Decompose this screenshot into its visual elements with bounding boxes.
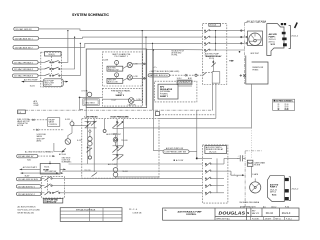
switch contact S1-b: [45, 67, 60, 70]
switch contact S1-c: [45, 74, 60, 77]
svg-text:29-21-0: 29-21-0: [282, 212, 291, 215]
wire lamp test to panel: [79, 97, 103, 99]
svg-text:SPECIAL EQUIP BULB: SPECIAL EQUIP BULB: [76, 208, 96, 211]
svg-text:HIGH PRESSURE: HIGH PRESSURE: [111, 116, 130, 118]
cluster diamond junction: [89, 130, 92, 133]
svg-text:115 VAC BUS NO 2: 115 VAC BUS NO 2: [15, 46, 34, 49]
switch module S1 label box W-4: [45, 52, 62, 56]
cluster bottom wire right: [116, 176, 160, 178]
svg-text:CODE 1B: CODE 1B: [132, 212, 142, 214]
indicator lamp DS3 master caution: [128, 98, 141, 107]
wire case drain to relay: [189, 152, 202, 159]
svg-text:LOW PRESS: LOW PRESS: [85, 116, 99, 118]
bus drop vertical D1: [141, 31, 143, 64]
legend box AUX HYD PRESS LOW: [107, 66, 123, 71]
long wire row W5: [64, 192, 202, 194]
wire L2 to transfer relay K1: [39, 37, 203, 38]
svg-text:GRD TEST: GRD TEST: [85, 102, 95, 104]
cluster vertical V2: [93, 119, 95, 171]
lamp circuit row 1: circle numbered 1: [115, 61, 119, 65]
cluster right vertical V4: [122, 119, 124, 146]
case drain vertical wire: [251, 84, 253, 158]
gnd svce relay contact: [54, 143, 66, 153]
indicator lamp DS2: [127, 75, 138, 80]
switch contact S1-a: [45, 60, 60, 63]
wire APU regulator to system box: [178, 85, 192, 87]
svg-text:P.CODE 1: P.CODE 1: [252, 218, 259, 220]
lamp test circle K3: [82, 89, 92, 97]
aux pump gnd control switch label box: [43, 199, 63, 204]
svg-text:(APU): (APU): [37, 140, 42, 143]
panel P5 sheet1 title: [112, 53, 131, 58]
wire panel box edge down to cluster: [85, 108, 87, 119]
svg-text:+: +: [243, 155, 244, 157]
wire battery bus dashed to relay: [170, 73, 207, 77]
svg-text:29-21-05: 29-21-05: [209, 151, 216, 153]
bottom left note text: [18, 205, 41, 214]
svg-text:CAUTION: CAUTION: [128, 103, 137, 106]
relay output wire to boundary: [224, 158, 239, 164]
svg-text:21-20: 21-20: [285, 106, 289, 108]
long wire row W1: [69, 163, 203, 165]
legend table: [273, 99, 295, 111]
relay contact row 1: [204, 29, 226, 33]
svg-text:BUS 1 LOW: BUS 1 LOW: [108, 82, 118, 84]
panel edge terminal T2: [144, 78, 146, 80]
pump motor B1 circle: [249, 33, 261, 45]
pump2 unit text: [270, 183, 279, 196]
svg-text:B-38: B-38: [188, 78, 192, 80]
panel P5 sheet2 title: [111, 89, 131, 97]
electric motor housing box: [248, 31, 263, 46]
gnd svce relay text: [59, 153, 72, 164]
wire bus 4 to transfer relay K1: [147, 48, 203, 50]
lower switch contact c: [41, 191, 64, 195]
svg-text:A-2 LOW: A-2 LOW: [176, 159, 184, 162]
note text empty ac elec bus: [149, 67, 179, 73]
svg-text:S-2 PUMP SW: S-2 PUMP SW: [45, 171, 57, 173]
arrow right of M1: [60, 169, 66, 171]
node label 115 VAC BUS 2 (L3): [13, 46, 39, 50]
wire switch S1 out c up to bus band: [60, 43, 80, 75]
svg-text:REV 21: REV 21: [275, 218, 281, 220]
pump2 connector black rect J3: [285, 178, 289, 181]
svg-text:SHEET 2: SHEET 2: [116, 95, 125, 97]
ground test box: [83, 99, 100, 106]
node label 115 vac bus (L9): [16, 185, 41, 189]
vertical wire inside panel box B: [145, 78, 147, 105]
wire arrow right from S2: [63, 81, 69, 83]
double arrow harness line: [21, 172, 64, 174]
svg-text:PRESS: PRESS: [252, 70, 259, 72]
node label 115 VAC XFR BUS (L4): [13, 61, 39, 65]
junction dots on bus band: [142, 30, 154, 51]
fire annun panel P5 sheet2 dashed box: [102, 88, 142, 106]
coil TR-1 circles bottom: [113, 168, 128, 179]
cluster aux vertical V1b: [103, 119, 106, 133]
svg-text:84-PG 204, 227 & DU66: 84-PG 204, 227 & DU66: [18, 209, 41, 211]
svg-text:115 VAC GRD SV BUS: 115 VAC GRD SV BUS: [18, 178, 39, 181]
svg-text:P. 201-1: P. 201-1: [286, 218, 292, 220]
cluster rung mid: [113, 128, 124, 134]
annunciator panel P5 sheet1 dashed box: [102, 52, 142, 86]
title block drawing title: [178, 210, 203, 216]
long wire row W3: [64, 177, 202, 179]
svg-text:SCHEMATIC: SCHEMATIC: [62, 161, 73, 164]
svg-text:P5-2 SHEET 1: P5-2 SHEET 1: [115, 56, 129, 58]
reservoir relay contact 2: [205, 170, 224, 174]
wire lamp row1: [117, 64, 143, 69]
svg-text:DOUGLAS: DOUGLAS: [219, 211, 246, 216]
svg-text:P6 PNL: P6 PNL: [172, 55, 178, 57]
coil K1 circles left: [88, 133, 92, 150]
svg-text:115 VAC GRD SV: 115 VAC GRD SV: [15, 28, 32, 31]
cluster vertical V1: [87, 119, 89, 164]
svg-text:S-243: S-243: [65, 119, 70, 121]
coil K2 circle: [70, 120, 74, 126]
wire relay to ground boundary left: [203, 72, 213, 74]
label oil press value: [174, 159, 184, 162]
svg-text:ACT-1B: ACT-1B: [17, 124, 24, 127]
svg-text:AUX HYDRAULIC PUMP: AUX HYDRAULIC PUMP: [178, 210, 203, 213]
svg-text:28: 28: [278, 104, 280, 106]
svg-text:W-13: W-13: [271, 44, 275, 46]
reservoir relay contact 3: [205, 177, 224, 181]
lower switch contact b: [41, 184, 64, 188]
APU regulator box U1: [158, 84, 178, 99]
wire dashed to relief valve: [29, 119, 48, 121]
arrow into reservoir area: [229, 60, 234, 62]
svg-text:M-161: M-161: [44, 167, 49, 169]
relay contact row 4: [204, 49, 226, 53]
junction plus marks: [230, 173, 236, 175]
cluster switch SW-H2: [112, 146, 123, 153]
svg-text:S-137: S-137: [77, 140, 82, 142]
pump2 connector black rect J5: [285, 197, 289, 200]
coil TR-2 circles mid: [113, 134, 127, 146]
svg-text:+: +: [238, 155, 239, 157]
wire L3 to transfer relay K1: [39, 43, 203, 47]
wire cluster to case drain label: [153, 150, 163, 152]
svg-text:AUX HYD PUMP AREA: AUX HYD PUMP AREA: [247, 20, 267, 23]
panel edge terminal T1: [142, 63, 145, 65]
switch module S1 dashed enclosure: [41, 52, 62, 87]
pump2 bracket and ref: [289, 177, 298, 201]
wire L5 into switch S1: [38, 68, 44, 70]
pump2 boundary dash-dot: [245, 151, 262, 207]
bracket and sheet ref right: [289, 26, 298, 49]
wire relay drop to terminal: [159, 83, 216, 118]
svg-text:LOW PRESS LIGHT SW: LOW PRESS LIGHT SW: [165, 152, 187, 154]
wire lamp row3: [102, 99, 142, 100]
svg-text:36: 36: [278, 109, 280, 111]
svg-text:B-437: B-437: [25, 175, 30, 177]
cluster switch SW-H3: [112, 154, 123, 160]
page tick mark top right: [295, 23, 298, 29]
svg-text:29-21-0: 29-21-0: [291, 36, 298, 38]
transfer relay R1 dashed enclosure: [203, 24, 227, 85]
bus drop vertical D4: [152, 50, 154, 151]
wire L6 into switch S1: [38, 75, 44, 77]
motor circle M2: [65, 126, 72, 145]
node label 115 vac gnd svce bus (L7): [17, 154, 38, 158]
svg-text:(SHT 1): (SHT 1): [269, 41, 276, 43]
svg-text:CONTROL SW: CONTROL SW: [44, 201, 56, 203]
svg-text:AUX HYD PUMP LOW: AUX HYD PUMP LOW: [166, 147, 184, 150]
relay contact row 2: [204, 36, 226, 40]
wire relay drop to boundary: [212, 83, 214, 110]
svg-text:ALT HYD PUMP 2: ALT HYD PUMP 2: [23, 166, 37, 169]
svg-text:21-10: 21-10: [285, 104, 289, 106]
reservoir relay armature vertical: [216, 158, 218, 192]
svg-text:29-21-04: 29-21-04: [210, 25, 216, 27]
transfer relay title box: [209, 24, 221, 27]
legend box GEN OFF BUS: [107, 78, 123, 83]
note text no aux pump: [172, 50, 185, 57]
node label case drain filter: [163, 150, 189, 154]
wire L4 into switch S1: [38, 61, 44, 63]
wire from lamp test down: [80, 97, 84, 109]
wire switch S1 out b up to bus band: [60, 37, 75, 69]
title block bottom row text: [217, 217, 292, 220]
long wire mid right: [123, 127, 251, 129]
svg-text:SWITCH: SWITCH: [44, 84, 52, 86]
svg-text:AC ELECTRONICS: AC ELECTRONICS: [18, 205, 37, 208]
svg-text:115 VAC BUS NO 1: 115 VAC BUS NO 1: [18, 185, 35, 188]
svg-text:RH WHEEL WELL AREA: RH WHEEL WELL AREA: [240, 201, 260, 204]
svg-text:115 VAC XFR BUS 2: 115 VAC XFR BUS 2: [14, 68, 34, 71]
node label 115 VAC XFR BUS (L5): [13, 67, 39, 71]
pump unit outline polygon sheet1: [267, 24, 284, 56]
svg-text:29-21-0: 29-21-0: [292, 188, 299, 190]
svg-text:W-4(1): W-4(1): [49, 54, 55, 56]
wire dashed from L7 with arrow: [38, 155, 55, 157]
wire L1 to transfer relay K1: [39, 29, 203, 31]
boundary connector plus-x: [240, 74, 246, 76]
title block cell rev: [252, 211, 259, 215]
svg-text:115 VAC BUS NO 2: 115 VAC BUS NO 2: [18, 193, 35, 196]
aux pump M1 box: [40, 161, 60, 174]
cluster rung mid lower: [113, 146, 124, 155]
lamp circuit row 2: circle numbered 2: [115, 73, 119, 77]
case drain filter box: [247, 160, 265, 177]
svg-text:SHEET 1: SHEET 1: [160, 96, 169, 98]
title block frame: [163, 208, 299, 220]
svg-text:29 - 2 - 0: 29 - 2 - 0: [129, 209, 138, 211]
bus drop vertical D2: [145, 37, 147, 78]
svg-text:LTS 7A: LTS 7A: [82, 89, 89, 92]
switch mechanical link: [51, 56, 53, 74]
wire switch S1 out a up to bus band: [60, 31, 68, 63]
indicator lamp DS1: [127, 62, 138, 67]
svg-text:A/C B-44: A/C B-44: [59, 153, 66, 156]
svg-text:DC-10: DC-10: [266, 212, 274, 215]
cluster rung left top: [85, 121, 97, 128]
reservoir box: [246, 56, 268, 85]
cluster switch SW-L: [86, 121, 97, 128]
long wire row W2: [62, 170, 203, 172]
fuel valve shutoff text: [37, 134, 47, 143]
system no 1 double box: [177, 80, 192, 85]
cluster left bottom contact: [92, 171, 98, 176]
reservoir relay contact 1: [205, 163, 224, 167]
wire dashed row 2: [33, 129, 64, 131]
boundary connector bars: [237, 155, 245, 161]
fuel cutoff small box: [18, 110, 26, 114]
wire into cluster from K2: [72, 125, 88, 126]
svg-text:TR-243: TR-243: [121, 140, 127, 142]
svg-text:S-631: S-631: [30, 85, 35, 87]
svg-text:115 VAC GND SV: 115 VAC GND SV: [18, 155, 34, 158]
cluster switch SW-H1: [112, 121, 123, 128]
lower switch mech link: [47, 178, 49, 195]
connector black rect J2: [283, 43, 287, 46]
reservoir relay contact 4: [205, 184, 224, 188]
svg-text:LOW: LOW: [134, 76, 138, 78]
vertical wire to reservoir relay: [196, 110, 198, 159]
svg-text:GRD TEST: GRD TEST: [250, 53, 260, 55]
wire pins at pump inlet: [246, 36, 247, 44]
svg-text:PRESS LOW: PRESS LOW: [108, 70, 119, 72]
junction dots W-4 outputs: [67, 30, 81, 44]
reservoir relay wire in: [203, 157, 213, 159]
svg-text:115 VAC XFR BUS 3: 115 VAC XFR BUS 3: [14, 75, 34, 78]
relay output wire to pump2: [224, 171, 245, 176]
pump assembly boundary dash-dot: [245, 23, 267, 84]
vertical wire inside panel box A: [141, 64, 143, 104]
node label 115 VAC GRD SV BUS (L1): [14, 27, 39, 31]
svg-text:D-427: D-427: [111, 100, 116, 102]
svg-text:CONTROL: CONTROL: [186, 214, 197, 216]
equipment boundary dash-dot line: [25, 109, 213, 111]
pump unit text sheet1: [269, 33, 278, 46]
reservoir relay contact 5: [205, 191, 224, 195]
svg-text:AC GND SVCE BUS SCHEMATIC: AC GND SVCE BUS SCHEMATIC: [25, 151, 54, 154]
svg-text:B-61: B-61: [27, 159, 31, 161]
svg-text:S-114: S-114: [177, 78, 182, 80]
svg-text:BATTERY BUS SCH: BATTERY BUS SCH: [150, 74, 168, 77]
wire arrow left from S2: [22, 81, 44, 83]
revision table: [60, 208, 122, 222]
svg-text:CONTROL: CONTROL: [49, 124, 58, 126]
svg-text:115 VAC XFR BUS 1: 115 VAC XFR BUS 1: [14, 61, 34, 64]
node label BATTERY BUS schematic: [148, 74, 169, 78]
connector black rect J1a: [282, 32, 286, 35]
svg-text:JUN 8/79: JUN 8/79: [265, 218, 272, 220]
wire lamp row2: [117, 77, 146, 81]
panel assembly outer box: [86, 49, 147, 108]
svg-text:AUX PUMP CONT: AUX PUMP CONT: [106, 133, 121, 136]
lower switch contact a: [41, 177, 64, 181]
svg-text:+ EMPTY AC ELEC BUS (SEE LGND): + EMPTY AC ELEC BUS (SEE LGND): [149, 70, 179, 73]
node label 115 VAC BUS 1 (L2): [13, 37, 39, 41]
svg-text:29: 29: [278, 106, 280, 108]
cluster left contact lower: [87, 147, 93, 159]
svg-text:COMP: COMP: [34, 105, 40, 107]
svg-text:ALT HYD PUMP: ALT HYD PUMP: [24, 79, 38, 82]
node label ALT HYD PUMP (L6): [13, 74, 39, 78]
pump2 motor circle: [250, 179, 261, 193]
svg-text:SYSTEM SCHEMATIC: SYSTEM SCHEMATIC: [72, 13, 110, 17]
node label 115 vac bus (L8): [16, 177, 41, 181]
pump2 connector black rect J4: [285, 189, 289, 192]
relay armature link vertical: [215, 31, 217, 50]
relay contact row 3: [204, 42, 226, 46]
pump2 unit outline polygon sheet2: [268, 176, 285, 202]
svg-text:1: 1: [116, 62, 117, 64]
fuel cutoff text block: [17, 119, 30, 127]
transfer relay label text: [205, 53, 222, 60]
cluster vertical V3: [116, 119, 118, 168]
connector black rect J1 top pair: [281, 23, 286, 25]
node label 115 vac bus (L10): [16, 192, 41, 196]
boundary label APU ELEX: [34, 100, 40, 107]
long wire row W4: [64, 185, 202, 187]
svg-text:1 GATE: 1 GATE: [252, 173, 259, 176]
bus drop vertical D3: [152, 43, 154, 110]
arrow left of M1: [20, 169, 41, 171]
control cluster dashed enclosure: [82, 119, 159, 179]
relay coil loop: [212, 72, 220, 83]
relief valve control box: [48, 118, 60, 127]
reservoir relay dashed enclosure: [203, 145, 228, 203]
svg-text:NR 89 SB (S) 435: NR 89 SB (S) 435: [18, 212, 35, 214]
reservoir relay title box: [205, 146, 227, 154]
bottom center sheet number: [129, 209, 142, 214]
svg-text:N: N: [247, 211, 249, 215]
lower switch dashed enclosure: [42, 177, 65, 199]
terminal square: [156, 112, 160, 116]
svg-text:+T/+: +T/+: [153, 67, 157, 69]
svg-text:2: 2: [116, 75, 117, 77]
label row above title block: [240, 206, 289, 209]
wires relay to pump assembly with pins: [227, 30, 245, 53]
aux pump control switch S2 box: [43, 79, 63, 87]
APU regulator dashed enclosure: [155, 81, 197, 102]
svg-text:FILTER: FILTER: [254, 165, 261, 167]
connector black rect J1b: [282, 38, 286, 41]
svg-text:D-238: D-238: [103, 60, 108, 62]
relay coil contact lower: [212, 60, 216, 72]
svg-text:115 VAC BUS NO 1: 115 VAC BUS NO 1: [15, 37, 34, 40]
svg-text:SYSTEM NO 1: SYSTEM NO 1: [179, 82, 191, 84]
svg-text:T-4: T-4: [18, 112, 21, 114]
